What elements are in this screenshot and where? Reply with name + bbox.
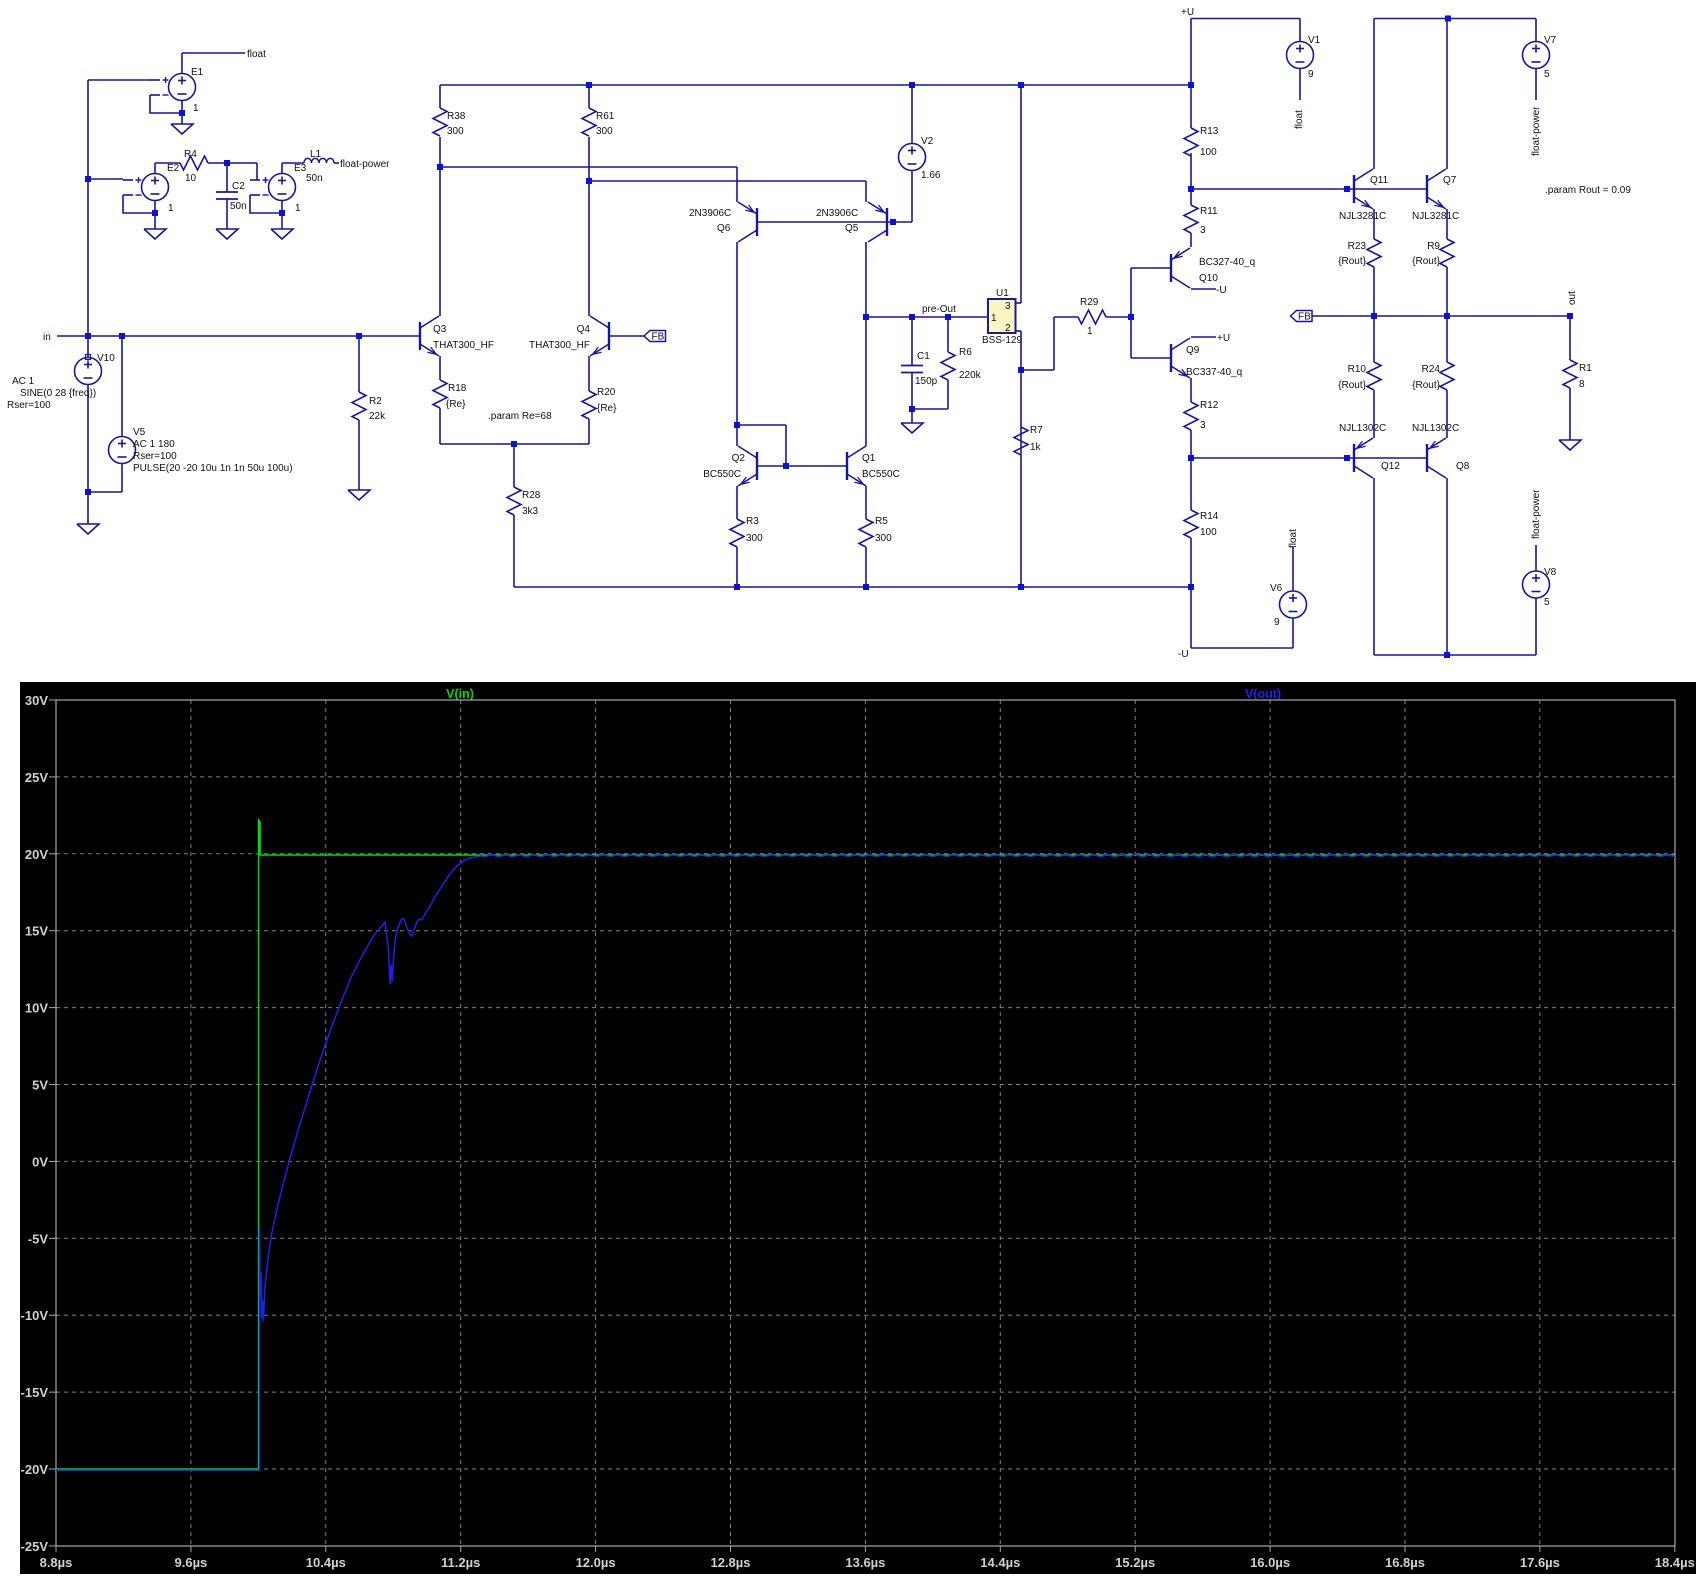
svg-text:Q5: Q5: [845, 223, 859, 234]
svg-text:Q3: Q3: [433, 324, 447, 335]
svg-text:150p: 150p: [915, 376, 938, 387]
svg-text:R6: R6: [959, 347, 972, 358]
svg-text:R24: R24: [1422, 364, 1441, 375]
svg-text:V6: V6: [1270, 583, 1283, 594]
svg-text:2N3906C: 2N3906C: [689, 208, 731, 219]
svg-text:V8: V8: [1544, 567, 1557, 578]
svg-text:V(in): V(in): [446, 687, 474, 701]
svg-text:R20: R20: [597, 387, 616, 398]
svg-text:100: 100: [1200, 147, 1217, 158]
svg-text:18.4µs: 18.4µs: [1655, 1555, 1695, 1570]
svg-text:V(out): V(out): [1245, 687, 1281, 701]
svg-text:.param Re=68: .param Re=68: [488, 411, 552, 422]
svg-text:V5: V5: [133, 427, 146, 438]
svg-text:1.66: 1.66: [921, 170, 941, 181]
svg-text:10: 10: [185, 173, 197, 184]
svg-text:100: 100: [1200, 527, 1217, 538]
svg-text:R7: R7: [1030, 425, 1043, 436]
svg-text:Q9: Q9: [1186, 345, 1200, 356]
svg-text:E3: E3: [294, 163, 307, 174]
svg-text:Q11: Q11: [1370, 175, 1389, 186]
svg-text:1: 1: [295, 203, 301, 214]
svg-text:Q10: Q10: [1199, 273, 1218, 284]
svg-text:R29: R29: [1080, 297, 1099, 308]
svg-text:3: 3: [1005, 301, 1011, 312]
svg-text:R10: R10: [1348, 364, 1367, 375]
svg-text:V1: V1: [1308, 35, 1321, 46]
svg-text:AC 1 180: AC 1 180: [133, 439, 175, 450]
svg-text:3: 3: [1200, 225, 1206, 236]
svg-text:FB: FB: [1298, 312, 1311, 323]
svg-text:R61: R61: [596, 111, 615, 122]
svg-text:R14: R14: [1200, 511, 1219, 522]
svg-text:20V: 20V: [25, 847, 48, 862]
svg-text:float-power: float-power: [340, 159, 390, 170]
svg-text:R18: R18: [448, 383, 467, 394]
svg-text:220k: 220k: [959, 370, 982, 381]
svg-text:300: 300: [596, 126, 613, 137]
svg-text:R23: R23: [1348, 241, 1367, 252]
svg-text:BC327-40_q: BC327-40_q: [1199, 257, 1255, 268]
svg-text:NJL3281C: NJL3281C: [1339, 211, 1386, 222]
svg-text:BC550C: BC550C: [862, 469, 900, 480]
svg-text:R11: R11: [1200, 206, 1218, 217]
svg-text:13.6µs: 13.6µs: [845, 1555, 885, 1570]
svg-text:Q4: Q4: [577, 324, 591, 335]
svg-text:AC 1: AC 1: [12, 376, 35, 387]
svg-text:-15V: -15V: [21, 1385, 49, 1400]
svg-text:2N3906C: 2N3906C: [816, 208, 858, 219]
svg-text:float: float: [1294, 110, 1305, 129]
svg-text:NJL1302C: NJL1302C: [1339, 423, 1386, 434]
svg-text:15V: 15V: [25, 924, 48, 939]
svg-text:Q6: Q6: [717, 223, 731, 234]
svg-text:float-power: float-power: [1531, 106, 1542, 156]
svg-text:3: 3: [1200, 420, 1206, 431]
svg-text:1: 1: [1087, 326, 1093, 337]
svg-text:Q1: Q1: [862, 453, 876, 464]
svg-text:{Rout}: {Rout}: [1412, 380, 1440, 391]
svg-text:10V: 10V: [25, 1001, 48, 1016]
svg-text:R2: R2: [369, 396, 382, 407]
svg-text:+U: +U: [1217, 333, 1230, 344]
svg-text:FB: FB: [652, 332, 665, 343]
svg-text:2: 2: [1005, 323, 1011, 334]
svg-text:50n: 50n: [306, 173, 323, 184]
svg-text:Rser=100: Rser=100: [7, 400, 51, 411]
svg-text:9: 9: [1274, 617, 1280, 628]
svg-text:11.2µs: 11.2µs: [441, 1555, 480, 1570]
svg-text:1: 1: [193, 103, 199, 114]
svg-text:1: 1: [168, 203, 174, 214]
svg-text:NJL1302C: NJL1302C: [1412, 423, 1459, 434]
svg-text:-5V: -5V: [28, 1231, 49, 1246]
svg-text:float: float: [1288, 529, 1299, 548]
svg-text:R38: R38: [447, 111, 466, 122]
svg-text:{Re}: {Re}: [446, 399, 466, 410]
svg-text:R13: R13: [1200, 126, 1219, 137]
svg-text:300: 300: [447, 126, 464, 137]
svg-text:300: 300: [746, 533, 763, 544]
svg-text:12.0µs: 12.0µs: [576, 1555, 616, 1570]
svg-text:V2: V2: [921, 136, 934, 147]
svg-text:10.4µs: 10.4µs: [306, 1555, 346, 1570]
svg-text:-25V: -25V: [21, 1539, 49, 1554]
svg-text:out: out: [1567, 291, 1578, 305]
svg-text:30V: 30V: [25, 693, 48, 708]
svg-text:{Rout}: {Rout}: [1412, 256, 1440, 267]
svg-text:8.8µs: 8.8µs: [40, 1555, 73, 1570]
svg-text:300: 300: [875, 533, 892, 544]
svg-text:C2: C2: [232, 181, 245, 192]
svg-text:U1: U1: [996, 288, 1009, 299]
svg-text:PULSE(20 -20 10u 1n 1n 50u 100: PULSE(20 -20 10u 1n 1n 50u 100u): [133, 463, 293, 474]
svg-text:-U: -U: [1178, 649, 1189, 660]
svg-text:.param Rout = 0.09: .param Rout = 0.09: [1545, 185, 1631, 196]
svg-text:R9: R9: [1427, 241, 1440, 252]
svg-text:R4: R4: [184, 149, 197, 160]
svg-text:14.4µs: 14.4µs: [980, 1555, 1020, 1570]
svg-text:pre-Out: pre-Out: [922, 304, 956, 315]
svg-text:float-power: float-power: [1531, 489, 1542, 539]
svg-text:8: 8: [1579, 379, 1585, 390]
svg-text:R28: R28: [522, 490, 541, 501]
svg-text:SINE(0 28 {freq}): SINE(0 28 {freq}): [20, 388, 96, 399]
svg-text:50n: 50n: [230, 201, 247, 212]
svg-text:NJL3281C: NJL3281C: [1412, 211, 1459, 222]
svg-text:E1: E1: [191, 67, 204, 78]
svg-text:{Rout}: {Rout}: [1338, 256, 1366, 267]
svg-text:25V: 25V: [25, 770, 48, 785]
svg-text:Rser=100: Rser=100: [133, 451, 177, 462]
svg-text:5: 5: [1544, 69, 1550, 80]
svg-text:V7: V7: [1544, 35, 1557, 46]
svg-text:+U: +U: [1181, 7, 1194, 18]
svg-text:L1: L1: [310, 149, 322, 160]
svg-text:1: 1: [991, 313, 997, 324]
svg-text:BC550C: BC550C: [703, 469, 741, 480]
svg-text:R12: R12: [1200, 400, 1219, 411]
svg-text:0V: 0V: [32, 1154, 48, 1169]
svg-text:{Rout}: {Rout}: [1338, 380, 1366, 391]
svg-text:E2: E2: [167, 163, 180, 174]
svg-text:9: 9: [1308, 69, 1314, 80]
svg-text:9.6µs: 9.6µs: [175, 1555, 208, 1570]
svg-text:THAT300_HF: THAT300_HF: [529, 340, 590, 351]
svg-text:THAT300_HF: THAT300_HF: [433, 340, 494, 351]
svg-text:5V: 5V: [32, 1078, 48, 1093]
svg-text:16.0µs: 16.0µs: [1250, 1555, 1290, 1570]
svg-text:float: float: [247, 49, 266, 60]
svg-text:{Re}: {Re}: [597, 403, 617, 414]
svg-text:17.6µs: 17.6µs: [1520, 1555, 1560, 1570]
svg-text:-U: -U: [1216, 285, 1227, 296]
svg-text:Q12: Q12: [1381, 461, 1400, 472]
svg-text:1k: 1k: [1030, 442, 1042, 453]
svg-text:5: 5: [1544, 597, 1550, 608]
svg-text:Q7: Q7: [1443, 175, 1457, 186]
svg-text:-20V: -20V: [21, 1462, 49, 1477]
svg-text:BSS-129: BSS-129: [982, 335, 1022, 346]
svg-text:C1: C1: [917, 351, 930, 362]
svg-text:12.8µs: 12.8µs: [710, 1555, 750, 1570]
svg-text:-10V: -10V: [21, 1308, 49, 1323]
svg-text:BC337-40_q: BC337-40_q: [1186, 367, 1242, 378]
svg-text:3k3: 3k3: [522, 506, 539, 517]
svg-text:22k: 22k: [369, 411, 386, 422]
svg-text:Q8: Q8: [1456, 461, 1470, 472]
svg-text:16.8µs: 16.8µs: [1385, 1555, 1425, 1570]
svg-text:Q2: Q2: [732, 453, 746, 464]
svg-text:15.2µs: 15.2µs: [1115, 1555, 1155, 1570]
svg-text:R1: R1: [1579, 363, 1592, 374]
svg-text:V10: V10: [97, 353, 115, 364]
svg-text:in: in: [43, 332, 51, 343]
svg-text:R3: R3: [746, 516, 759, 527]
svg-text:R5: R5: [875, 516, 888, 527]
